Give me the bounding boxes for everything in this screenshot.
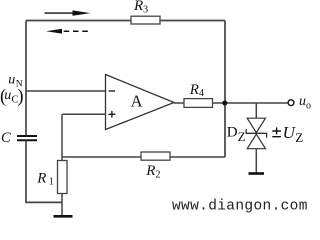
svg-text:www.diangon.com: www.diangon.com bbox=[172, 199, 308, 215]
op-amp U A bbox=[106, 75, 175, 130]
wire: top feedback rail from left vertical to R3 bbox=[26, 20, 131, 22]
arrow dashed (pointing left) bbox=[46, 29, 89, 34]
wire: R2 to right vertical bbox=[170, 156, 225, 158]
wire: R1 bottom to ground bbox=[61, 194, 63, 216]
svg-text:R2: R2 bbox=[145, 163, 160, 181]
svg-text:A: A bbox=[131, 91, 143, 110]
svg-text:Z: Z bbox=[295, 130, 303, 145]
wire: R4 to output terminal bbox=[213, 102, 289, 104]
capacitor C bbox=[17, 136, 37, 140]
wire: op-amp output stub bbox=[174, 102, 184, 104]
svg-text:): ) bbox=[17, 87, 23, 107]
wire: zener to ground bbox=[255, 149, 257, 173]
svg-text:uo: uo bbox=[299, 94, 311, 112]
resistor R1 bbox=[58, 161, 68, 194]
svg-text:R4: R4 bbox=[189, 82, 204, 99]
svg-text:R1: R1 bbox=[36, 170, 53, 187]
arrow solid (current direction, pointing right) bbox=[45, 10, 91, 15]
resistor R3 bbox=[131, 16, 160, 24]
terminal uo bbox=[288, 100, 294, 106]
label ±UZ bbox=[272, 127, 281, 136]
wire: R2 rail from non-inverting vertical to R2 bbox=[62, 156, 141, 158]
wire: R3 to right vertical drop bbox=[160, 20, 225, 22]
svg-text:C: C bbox=[1, 130, 11, 146]
wire: left vertical rail (top rail down to capacitor top plate) bbox=[25, 21, 27, 136]
zener pair DZ (back-to-back) bbox=[246, 118, 266, 149]
wire: zener branch drop from output rail bbox=[255, 103, 257, 118]
ground (below zener) bbox=[249, 172, 265, 175]
wire: left rail below capacitor, bend to R1 bottom bbox=[26, 141, 62, 203]
wire: non-inverting input from op-amp left to vertical bbox=[62, 113, 106, 115]
ground (below R1) bbox=[54, 215, 73, 218]
resistor R4 bbox=[184, 99, 213, 108]
resistor R2 bbox=[141, 152, 170, 160]
wire: non-inverting vertical down to R1 bbox=[61, 114, 63, 160]
wire: inverting input from left rail to op-amp bbox=[26, 90, 106, 92]
svg-text:R3: R3 bbox=[133, 0, 148, 15]
junction node (feedback / output) bbox=[222, 101, 227, 106]
svg-text:DZ: DZ bbox=[227, 125, 246, 144]
svg-text:u: u bbox=[4, 88, 11, 103]
wire: right vertical from top rail down to R2 level bbox=[224, 21, 226, 158]
